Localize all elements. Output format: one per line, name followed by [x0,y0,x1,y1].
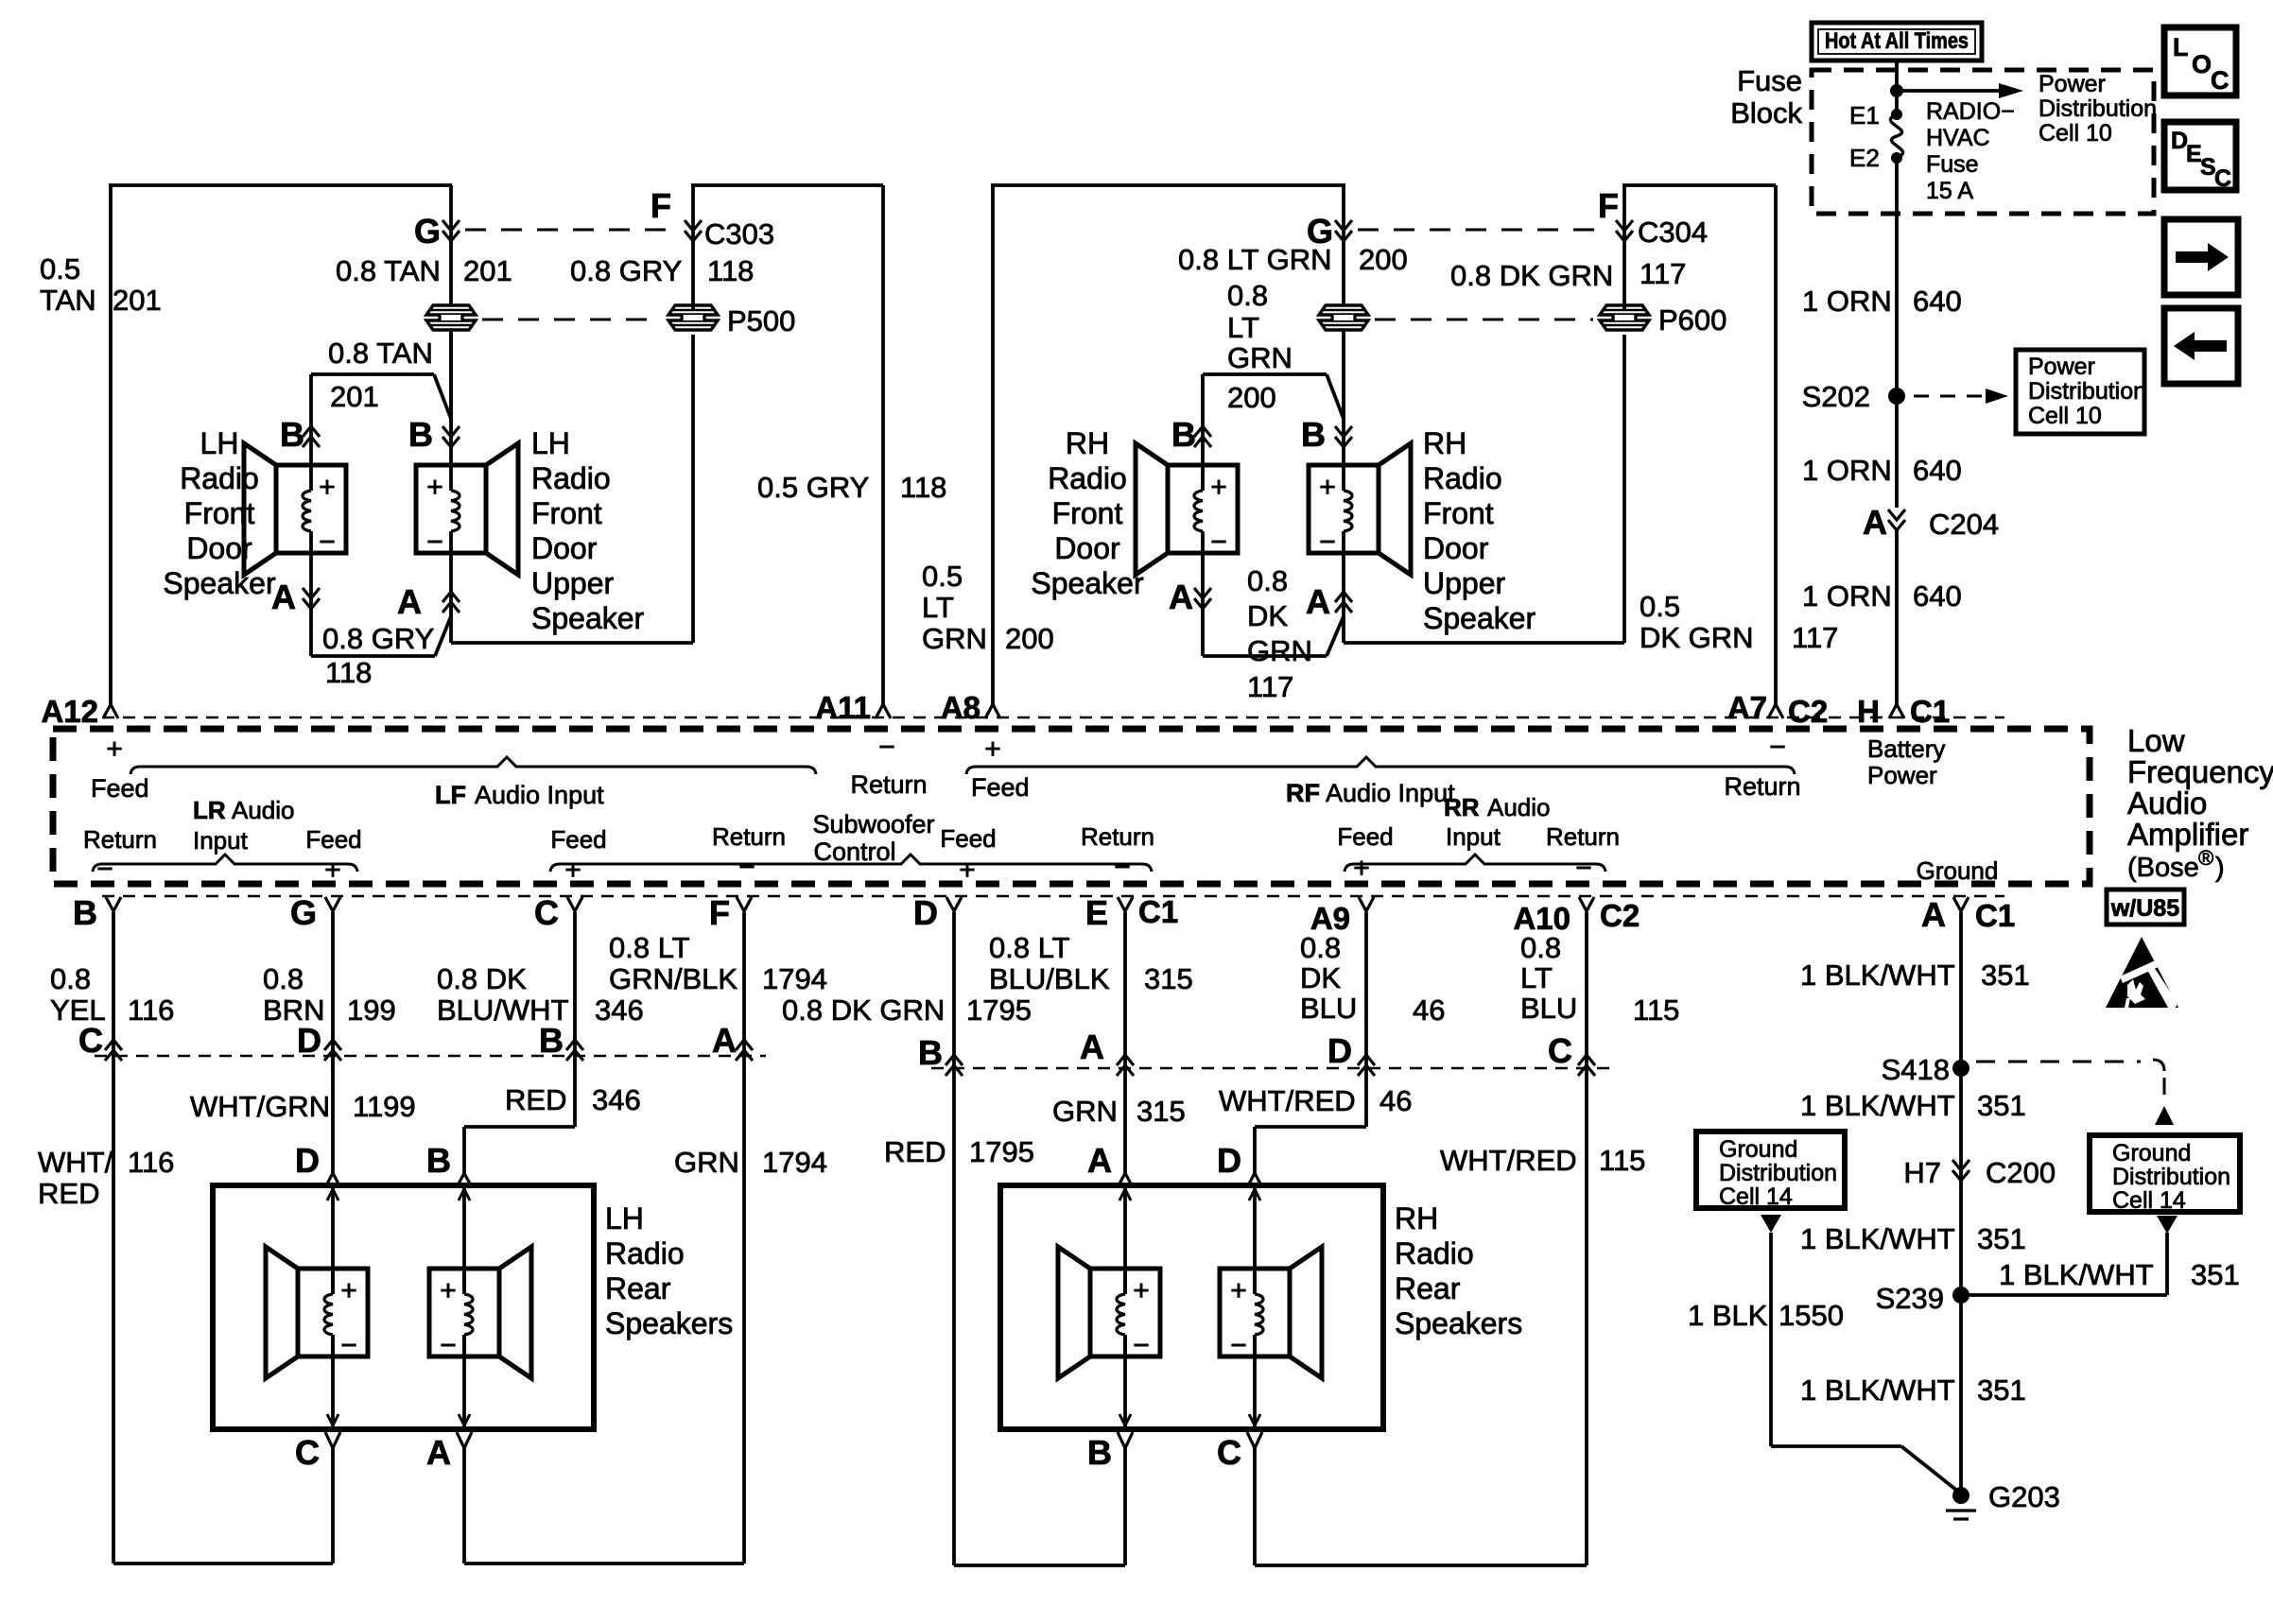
svg-text:C: C [295,1433,320,1472]
label 201 [113,284,162,317]
label 0.8 LT BLU/BLK [989,931,1110,995]
svg-text:E2: E2 [1849,144,1880,172]
svg-text:C2: C2 [1788,694,1828,729]
label Fuse Block [1730,64,1802,130]
label 1 BLK/WHT 351 (2) [1800,1089,2026,1122]
label B RH front door speaker [1171,415,1196,454]
svg-text:A: A [1087,1141,1112,1180]
svg-text:Radio: Radio [180,461,259,495]
connector C304 dashed line [1358,229,1607,232]
svg-text:−: − [426,527,443,558]
svg-text:Cell 10: Cell 10 [2028,403,2102,429]
RH rear speaker terminal C [1217,1432,1262,1565]
splice S239 [1876,1282,1969,1315]
label 0.8 GRY [570,254,682,287]
radio pin C chevron right [1548,1031,1595,1076]
wire 1 ORN 640 C204 to amplifier H [1895,530,1899,704]
svg-text:LR: LR [193,796,226,824]
dashed branch from S418 to ground distribution [1976,1060,2174,1125]
svg-text:0.8: 0.8 [1247,564,1288,597]
label RADIO-HVAC Fuse 15 A [1926,98,2015,204]
label + C [564,855,581,886]
label 315 top [1144,962,1193,995]
chevron B RH upper speaker [1335,426,1352,447]
svg-text:A: A [1921,895,1946,934]
svg-text:A11: A11 [815,690,871,725]
label 117 loop [1792,621,1838,654]
svg-text:B: B [73,893,97,932]
label 0.5 DK GRN [1640,590,1754,654]
svg-text:A: A [397,582,422,621]
svg-text:+: + [1353,853,1370,884]
svg-text:H: H [1857,694,1880,729]
label Ground [1917,856,1999,885]
wire into RH rear speaker 1 [1119,1185,1131,1429]
svg-text:B: B [1087,1433,1112,1472]
svg-text:−: − [878,732,895,763]
splice S202 [1802,380,1905,413]
label P600 [1658,303,1726,337]
svg-text:RH: RH [1066,426,1109,460]
brace LR Audio Input [93,855,357,872]
wire 0.8 BRN 199 from pin G [331,912,335,1175]
label RED 346 [505,1083,641,1116]
svg-text:C: C [1217,1433,1241,1472]
label - F [738,852,755,883]
svg-text:RR: RR [1444,793,1480,821]
fuse block dashed box [1812,70,2154,214]
right arrow legend box [2164,219,2238,295]
svg-text:1199: 1199 [353,1090,416,1123]
svg-text:B: B [280,415,304,454]
label 116 (B) [128,993,174,1027]
svg-text:LH: LH [605,1201,644,1235]
svg-text:−: − [440,1330,457,1361]
svg-text:+: + [1319,472,1336,503]
svg-text:Ground: Ground [1719,1136,1797,1163]
svg-text:−: − [1133,1330,1150,1361]
svg-text:201: 201 [463,254,512,287]
radio connector dashed line (right) [931,1067,1617,1069]
svg-text:118: 118 [707,254,754,287]
DESC legend box [2164,122,2236,192]
label C303 [704,217,774,251]
amplifier pin A8 [941,690,1000,725]
label + G [324,855,341,886]
svg-text:C: C [2211,66,2230,95]
triangle under left ground box [1761,1215,1781,1233]
svg-text:Audio: Audio [2127,786,2207,821]
svg-text:RED: RED [505,1083,566,1116]
svg-text:GRN: GRN [1247,634,1312,667]
svg-text:346: 346 [595,993,644,1027]
LH radio rear speakers box [213,1185,594,1429]
radio pin B chevron right [918,1033,963,1076]
svg-text:0.8 LT GRN: 0.8 LT GRN [1178,243,1332,276]
triangle under right ground box [2157,1216,2178,1234]
svg-text:351: 351 [1977,1222,2026,1255]
svg-text:LF: LF [435,781,466,809]
label WHT/RED 46 [1219,1084,1412,1117]
svg-text:LH: LH [531,426,570,460]
amplifier pin B [73,893,121,932]
label A LH upper speaker [397,582,422,621]
svg-text:RADIO−: RADIO− [1926,98,2015,125]
svg-text:Radio: Radio [1048,461,1127,495]
label Battery Power [1867,734,1945,789]
label RR Audio Input [1444,793,1551,851]
svg-text:Ground: Ground [2112,1140,2191,1166]
label 1 BLK/WHT 351 (3) [1800,1222,2026,1255]
svg-text:C304: C304 [1638,216,1708,249]
speaker LH rear 2 [429,1247,531,1378]
label 0.8 DK GRN [1450,259,1613,292]
svg-text:Door: Door [1423,531,1489,565]
svg-text:0.8 TAN: 0.8 TAN [328,337,433,370]
label B LH front door speaker [280,415,304,454]
label B RH upper speaker [1301,415,1326,454]
svg-text:−: − [1210,527,1227,558]
svg-text:LH: LH [200,426,239,460]
label 0.8 LT GRN [1178,243,1332,276]
svg-text:D: D [1327,1031,1352,1070]
svg-text:Feed: Feed [971,773,1030,802]
label 0.8 YEL [50,962,106,1027]
speaker LH radio front door [244,443,346,575]
svg-text:D: D [295,1141,320,1180]
Ground Distribution Cell 14 box (right) [2090,1135,2240,1214]
svg-text:S418: S418 [1882,1053,1950,1086]
amplifier pin A9 [1310,897,1374,936]
svg-text:Cell 14: Cell 14 [2112,1187,2186,1214]
svg-text:B: B [1301,415,1326,454]
svg-text:Radio: Radio [605,1236,685,1270]
svg-text:Feed: Feed [550,825,606,854]
svg-text:Door: Door [186,531,252,565]
label C304 [1638,216,1708,249]
RH rear speaker terminal D [1217,1141,1262,1187]
svg-text:Speaker: Speaker [531,601,645,635]
label 0.8 TAN branch [328,337,433,370]
svg-text:Distribution: Distribution [2112,1164,2230,1190]
arrow to Power Distribution Cell 10 [1897,83,2023,98]
label + feed A12 [106,734,123,765]
svg-text:351: 351 [1977,1089,2026,1122]
svg-text:Front: Front [1052,496,1123,530]
label F RH [1598,186,1619,225]
label LF Audio Input [435,781,604,809]
LH rear speaker terminal A [426,1432,472,1564]
svg-text:−: − [340,1330,357,1361]
svg-text:C204: C204 [1929,508,1999,541]
w/U85 box [2107,890,2184,924]
svg-text:346: 346 [592,1083,641,1116]
label Return A7 [1724,772,1800,801]
label - B [96,854,113,885]
svg-text:DK GRN: DK GRN [1640,621,1754,654]
svg-text:0.8: 0.8 [1520,931,1561,964]
label 1794 top [762,962,827,995]
RH rear speaker terminal B [1087,1432,1133,1565]
label + A9 [1353,853,1370,884]
amplifier connector dashed line (top) [102,717,2004,718]
svg-text:Feed: Feed [940,824,996,853]
label 0.8 DK GRN wire [782,993,945,1027]
svg-text:Door: Door [1054,531,1120,565]
svg-text:−: − [1575,853,1592,884]
label WHT/GRN 1199 [190,1090,416,1123]
radio pin A chevron right [1080,1028,1134,1076]
wire LH door speaker A to jumper [311,553,451,656]
svg-text:315: 315 [1136,1095,1186,1128]
svg-text:Speakers: Speakers [605,1306,733,1340]
svg-text:1794: 1794 [762,1146,827,1179]
svg-text:1 ORN: 1 ORN [1802,285,1892,318]
brace subwoofer span [550,855,1152,872]
svg-text:BLU: BLU [1520,992,1577,1025]
label F [651,186,671,225]
svg-text:Front: Front [1423,496,1494,530]
svg-text:C1: C1 [1138,894,1178,929]
label RF Audio Input [1286,779,1455,807]
label 117 jumper [1247,670,1293,703]
svg-text:®: ® [2198,846,2213,870]
wire into LH rear speaker 2 [459,1185,470,1429]
amplifier pin A7 [1727,690,1828,729]
svg-text:15 A: 15 A [1926,178,1973,204]
svg-text:Speaker: Speaker [1031,566,1144,600]
svg-text:LT: LT [1227,311,1259,344]
svg-text:Control: Control [813,838,895,866]
pass-through grommet P500 on TAN wire [426,305,476,330]
connector C303 pin G chevron [442,220,460,241]
label Return E [1081,822,1154,851]
connector C304 pin G chevron [1335,220,1352,241]
svg-text:Radio: Radio [531,461,611,495]
svg-text:Speaker: Speaker [163,566,276,600]
label 1 BLK/WHT 351 (4) [1800,1373,2026,1407]
svg-text:1 BLK/WHT: 1 BLK/WHT [1999,1258,2154,1291]
svg-text:E1: E1 [1849,101,1880,130]
svg-text:RF: RF [1286,779,1320,807]
LH rear speaker terminal D [295,1141,340,1187]
connector C303 dashed line [465,229,679,232]
amplifier pin C [534,893,582,932]
svg-text:A: A [1863,503,1887,542]
dashed arrow S202 to Power Distribution Cell 10 [1914,389,2008,404]
label 1 BLK/WHT 351 (1) [1800,959,2030,992]
svg-text:BLU/BLK: BLU/BLK [989,962,1110,995]
label 1 BLK/WHT 351 (right) [1999,1258,2240,1291]
svg-text:+: + [106,734,123,765]
svg-text:Cell 10: Cell 10 [2039,120,2112,147]
label 0.8 GRY jumper [322,622,434,655]
svg-text:1550: 1550 [1778,1299,1844,1332]
speaker RH rear 1 [1058,1247,1160,1378]
label Subwoofer Control [812,810,934,866]
svg-text:1795: 1795 [966,993,1032,1027]
label 0.8 LT GRN/BLK [609,931,737,995]
label 346 [595,993,644,1027]
svg-text:Power: Power [2028,354,2095,380]
label 1 BLK 1550 [1688,1299,1844,1332]
label LH Radio Front Door Speaker [163,426,276,600]
svg-text:351: 351 [1977,1373,2026,1407]
wire GRY from LH upper speaker A to C303 F [451,335,693,643]
wire 0.5 DK GRN 117 loop to A7 [1622,185,1776,704]
svg-text:Upper: Upper [531,566,615,600]
svg-text:L: L [2173,33,2189,61]
svg-text:0.8: 0.8 [1300,931,1341,964]
svg-text:WHT/RED: WHT/RED [1440,1144,1577,1177]
label P500 [727,304,795,337]
label 201 branch [330,380,379,413]
svg-text:−: − [1769,732,1786,763]
svg-text:Fuse: Fuse [1737,64,1802,97]
chevron A LH upper speaker [442,592,460,613]
svg-text:A: A [271,578,296,616]
splice S418 [1882,1053,1969,1086]
svg-text:−: − [1230,1330,1247,1361]
connector C304 pin F chevron [1616,220,1633,241]
label GRN 1794 [674,1146,827,1179]
label 118 jumper [325,656,372,689]
label Power Distribution Cell 10 (top) [2039,71,2157,147]
svg-text:0.8 GRY: 0.8 GRY [322,622,434,655]
brace RF Audio Input [966,757,1795,774]
svg-text:118: 118 [325,656,372,689]
svg-text:0.8 TAN: 0.8 TAN [336,254,441,287]
svg-text:46: 46 [1379,1084,1412,1117]
svg-text:A: A [1080,1028,1104,1066]
svg-text:201: 201 [330,380,379,413]
svg-text:Return: Return [1546,822,1620,851]
Low Frequency Audio Amplifier dashed box [53,729,2090,884]
label 118 [707,254,754,287]
svg-text:Fuse: Fuse [1926,151,1979,178]
wire 0.8 TAN 201 C303 G drop [449,185,453,426]
svg-text:Amplifier: Amplifier [2127,817,2248,852]
amplifier pin H [1857,694,1950,729]
svg-text:DK: DK [1247,599,1288,632]
svg-text:117: 117 [1792,621,1838,654]
wire 0.5 GRY 118 loop to A11 [691,185,883,704]
label A LH door speaker [271,578,296,616]
svg-text:351: 351 [1981,959,2030,992]
svg-text:116: 116 [128,1146,174,1179]
svg-text:Audio Input: Audio Input [1326,779,1455,807]
connector C204 pin A chevron [1888,510,1905,530]
svg-text:117: 117 [1247,670,1293,703]
wire DK GRN from RH upper speaker A to C304 F [1344,335,1624,643]
label - A10 [1575,853,1592,884]
svg-text:GRN/BLK: GRN/BLK [609,962,737,995]
chevron B LH upper speaker [442,426,460,447]
speaker RH radio front door [1136,443,1238,575]
radio pin D chevron right [1327,1031,1375,1076]
chevron A RH upper speaker [1335,592,1352,613]
speaker RH radio front door upper [1309,443,1411,575]
svg-text:1 BLK/WHT: 1 BLK/WHT [1800,1089,1955,1122]
svg-text:1794: 1794 [762,962,827,995]
amplifier pin E [1085,893,1178,932]
wire 0.8 LT GRN 200 branch to RH door speaker [1203,374,1344,465]
label 640 (3) [1913,579,1962,613]
pass-through grommet P500 on GRY wire [668,305,718,330]
amplifier pin A11 [815,690,891,725]
svg-text:+: + [340,1275,357,1306]
amplifier pin G [290,893,340,932]
wire RH door speaker A to jumper [1203,553,1344,656]
svg-text:B: B [539,1021,564,1060]
label + feed A8 [984,734,1001,765]
label 1 ORN (2) [1802,454,1892,487]
svg-text:S239: S239 [1876,1282,1944,1315]
svg-text:B: B [426,1141,451,1180]
svg-text:200: 200 [1227,381,1276,414]
svg-text:+: + [319,472,336,503]
svg-text:Subwoofer: Subwoofer [812,810,934,838]
svg-text:(Bose: (Bose [2127,853,2199,883]
wire 0.8 LT BLU/BLK 315 from pin E [1123,912,1127,1175]
svg-text:C1: C1 [1910,694,1950,729]
svg-text:Return: Return [712,822,786,851]
label Feed A8 [971,773,1030,802]
svg-text:C: C [78,1021,103,1060]
wire TAN continues to LH upper speaker B [449,335,453,465]
label 201 [463,254,512,287]
svg-text:Feed: Feed [305,825,361,854]
label B LH upper speaker [408,415,433,454]
svg-text:Battery: Battery [1867,734,1945,763]
label Return A11 [850,770,927,799]
LH rear speaker terminal C [295,1432,340,1564]
svg-text:DK: DK [1300,961,1341,994]
svg-text:116: 116 [128,993,174,1027]
label Return B [83,825,157,854]
label A C204 [1863,503,1999,542]
label 0.8 TAN [336,254,441,287]
svg-text:C200: C200 [1986,1156,2056,1189]
pass-through grommet P600 on DK GRN wire [1600,305,1649,330]
wire 1 ORN 640 S202 to C204 [1895,396,1899,508]
svg-text:F: F [709,893,730,932]
label Feed C [550,825,606,854]
svg-text:0.8 DK: 0.8 DK [437,962,527,995]
svg-text:200: 200 [1005,622,1054,655]
label GRN 315 [1052,1095,1186,1128]
svg-text:Front: Front [184,496,255,530]
ground G203 [1946,1480,2060,1519]
dashed link between P600 grommets [1375,319,1593,321]
label A RH door speaker [1169,578,1193,616]
svg-text:+: + [440,1275,457,1306]
amplifier pin A10 [1513,897,1640,936]
svg-text:G: G [414,212,441,251]
svg-text:D: D [913,893,938,932]
svg-text:0.8 GRY: 0.8 GRY [570,254,682,287]
pass-through grommet P600 on LT GRN wire [1319,305,1368,330]
svg-text:A8: A8 [941,690,980,725]
wire from Hot At All Times into fuse block [1895,60,1899,114]
svg-text:A: A [712,1021,737,1060]
dashed link between P500 grommets [482,319,662,321]
label + D [959,855,976,886]
label 199 [347,993,396,1027]
svg-text:199: 199 [347,993,396,1027]
Ground Distribution Cell 14 box (left) [1696,1132,1845,1210]
wire 0.5 LT GRN 200 from amplifier A8 up and across [991,185,1345,704]
